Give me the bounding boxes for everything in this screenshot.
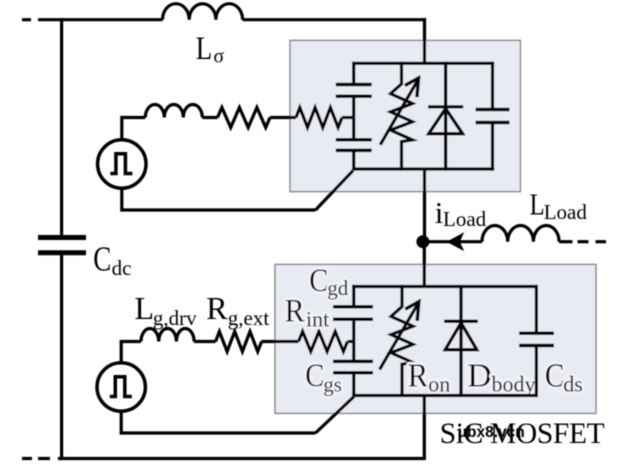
wire (bottom source diagonal) xyxy=(316,397,355,433)
capacitor (gate-drain, top) xyxy=(336,85,372,97)
inductor L_g,drv xyxy=(141,329,194,342)
inductor L_sigma xyxy=(163,4,243,20)
wire (bottom driver output) xyxy=(121,342,141,365)
wire (switch node to load inductor) xyxy=(423,240,482,243)
wire (into bottom model box) xyxy=(262,340,299,343)
wire (top drain entry) xyxy=(423,18,426,63)
wire (top model bottom rail) xyxy=(352,167,494,170)
SiC MOSFET model box (bottom device) xyxy=(275,264,596,413)
label D_body xyxy=(467,357,535,396)
svg-text:L: L xyxy=(135,290,155,326)
svg-text:L: L xyxy=(530,187,545,222)
SiC MOSFET model box (top device) xyxy=(290,40,520,191)
wire (left DC bus vertical, lower) xyxy=(60,255,63,460)
inductor (top gate loop) xyxy=(145,105,202,118)
wire (top rail, right of L_sigma) xyxy=(243,18,427,21)
label R_int xyxy=(285,294,330,332)
wire (top driver return) xyxy=(122,188,316,210)
wire (top gate branch upper) xyxy=(352,62,355,85)
svg-text:gd: gd xyxy=(327,276,349,300)
capacitor (gate-source, top) xyxy=(336,140,372,151)
svg-text:on: on xyxy=(428,371,450,396)
label R_on xyxy=(408,357,450,396)
svg-text:μbx8.vcn: μbx8.vcn xyxy=(458,424,525,441)
label C_dc xyxy=(93,240,131,280)
wire (after load inductor) xyxy=(559,240,572,243)
label L_sigma xyxy=(196,31,225,68)
svg-text:int: int xyxy=(306,307,329,332)
resistor R_int xyxy=(299,332,348,352)
wire (to gate node, bottom) xyxy=(348,340,354,343)
svg-text:C: C xyxy=(545,357,565,394)
svg-text:g,drv: g,drv xyxy=(153,306,197,330)
capacitor (drain-source, top) xyxy=(476,62,510,171)
svg-text:Load: Load xyxy=(544,200,588,224)
capacitor C_dc xyxy=(38,238,86,253)
svg-text:g,ext: g,ext xyxy=(228,306,270,330)
variable resistor R_on (bottom) xyxy=(380,285,419,397)
resistor (top gate, internal) xyxy=(296,108,342,128)
wire (bottom driver return) xyxy=(121,411,315,433)
svg-text:D: D xyxy=(467,357,492,394)
svg-text:Load: Load xyxy=(443,207,487,231)
resistor (top gate, external) xyxy=(218,108,270,128)
wire (bottom source down to bus) xyxy=(423,396,426,459)
wire (top driver output to gate inductor) xyxy=(122,118,146,142)
wire (switch node down to bottom device) xyxy=(423,242,426,287)
wire (top model top rail) xyxy=(352,62,494,65)
wire (into top model box) xyxy=(270,116,296,119)
svg-text:gs: gs xyxy=(323,373,342,397)
svg-text:ds: ds xyxy=(563,371,583,396)
capacitor C_ds (bottom) xyxy=(519,285,554,397)
label R_g,ext xyxy=(206,290,269,330)
pulse source (top gate driver) xyxy=(98,140,146,188)
wire (bottom-left dashes) xyxy=(22,457,50,460)
arrow i_Load xyxy=(447,232,465,251)
wire (top-left dash) xyxy=(22,18,31,21)
capacitor C_gd xyxy=(333,307,373,320)
diode (body, top) xyxy=(428,62,463,171)
svg-text:R: R xyxy=(206,290,228,326)
label C_gd xyxy=(309,263,349,300)
svg-text:dc: dc xyxy=(112,256,132,280)
diode D_body xyxy=(444,285,478,397)
svg-text:σ: σ xyxy=(213,46,224,68)
wire xyxy=(202,116,217,119)
svg-text:body: body xyxy=(492,371,536,396)
wire (gate branch lower, bottom) xyxy=(352,373,355,397)
pulse source (bottom gate driver) xyxy=(97,363,145,411)
wire xyxy=(194,340,216,343)
svg-text:L: L xyxy=(196,31,213,67)
inductor L_Load xyxy=(482,225,559,241)
svg-text:C: C xyxy=(93,240,111,279)
wire (bottom model top rail) xyxy=(352,285,538,288)
wire (gate branch lower, top) xyxy=(352,150,355,170)
label C_ds xyxy=(545,357,583,396)
wire (right dashes) xyxy=(578,240,607,243)
wire (top drain to switch node) xyxy=(423,169,426,242)
wire (between gate capacitors, bottom) xyxy=(352,319,355,361)
node (switch node) xyxy=(416,235,429,248)
resistor R_g,ext xyxy=(216,332,262,352)
wire (bottom model bottom rail) xyxy=(352,394,538,397)
label C_gs xyxy=(305,358,342,396)
svg-text:R: R xyxy=(285,294,305,330)
wire (left DC bus vertical, upper) xyxy=(60,18,63,235)
label i_Load xyxy=(435,195,487,231)
wire (top source diagonal) xyxy=(316,171,354,210)
label L_g,drv xyxy=(135,290,198,330)
wire (bottom gate branch upper) xyxy=(352,285,355,307)
capacitor C_gs xyxy=(333,361,373,372)
wire (bottom bus rail) xyxy=(58,457,426,460)
wire (top rail, left of L_sigma) xyxy=(38,18,163,21)
svg-text:C: C xyxy=(309,263,328,299)
svg-text:C: C xyxy=(305,358,324,394)
variable resistor (channel, top) xyxy=(380,62,418,171)
label L_Load xyxy=(530,187,588,225)
svg-text:R: R xyxy=(408,357,429,394)
wire (between gate capacitors, top) xyxy=(352,96,355,140)
wire (to gate capacitor node, top) xyxy=(342,116,354,119)
